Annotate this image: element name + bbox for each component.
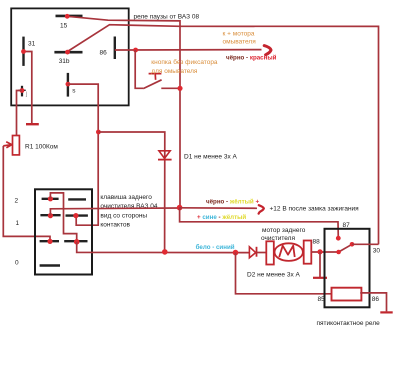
- node 86 junction: [133, 48, 138, 53]
- svg-text:31b: 31b: [59, 58, 70, 65]
- resistor R1 100K (variable): [13, 136, 20, 155]
- switch contact bars row B: [40, 214, 60, 216]
- wire C2 to motor line (бело-синий): [77, 242, 250, 253]
- node B1: [48, 213, 53, 218]
- node pin 87: [336, 236, 341, 241]
- wire motor to relay pin 88: [311, 251, 338, 253]
- relay K1 (5-pin) box: [325, 229, 370, 307]
- wire 88 junction to ground: [319, 252, 321, 277]
- motor right brush: [304, 241, 312, 264]
- wire A to C2: [50, 193, 76, 242]
- diode D1: [159, 151, 170, 159]
- pin s bar: [67, 73, 69, 97]
- svg-text:вид со стороны: вид со стороны: [100, 213, 147, 220]
- svg-text:R1 100Ком: R1 100Ком: [25, 143, 58, 150]
- node 88 junction: [317, 249, 322, 254]
- wire pin 31b to relay pin 30 (top long run): [68, 25, 379, 245]
- pin 31 bar: [22, 37, 24, 66]
- svg-text:15: 15: [60, 23, 68, 30]
- node pin s: [66, 82, 71, 87]
- wire coil 86 to ground: [360, 293, 386, 312]
- svg-text:31: 31: [28, 41, 36, 48]
- svg-text:мотор заднего: мотор заднего: [262, 227, 306, 234]
- node +12V junction: [177, 205, 183, 211]
- wire B1 to +12V node: [50, 208, 179, 216]
- svg-text:чёрно - жёлтый +: чёрно - жёлтый +: [206, 198, 259, 205]
- switch contact bars row A: [42, 198, 59, 200]
- svg-text:кнопка без фиксатора: кнопка без фиксатора: [151, 58, 218, 66]
- svg-text:87: 87: [343, 222, 351, 229]
- wire wiper to switch contact C1: [3, 146, 50, 242]
- node pin 31b: [65, 50, 70, 55]
- node D1 branch: [96, 130, 101, 135]
- switch S1 (rear wiper key VAZ 04) box: [35, 189, 92, 274]
- svg-text:0: 0: [15, 260, 19, 267]
- node C2: [74, 239, 80, 245]
- pin 15 bar: [56, 15, 83, 18]
- wire +12V node to relay pin 87: [180, 208, 339, 239]
- relay blade 88-30: [339, 244, 352, 252]
- svg-text:к + мотора: к + мотора: [223, 31, 255, 38]
- svg-text:бело - синий: бело - синий: [196, 244, 235, 251]
- wire pin j to R1 top: [17, 91, 23, 136]
- svg-text:реле паузы от ВАЗ 08: реле паузы от ВАЗ 08: [134, 14, 200, 21]
- svg-text:контактов: контактов: [100, 222, 130, 229]
- node button/+15: [177, 86, 182, 91]
- node D1 / motor line: [162, 249, 168, 255]
- wire D2 to motor: [257, 252, 267, 254]
- ground near coil 86: [380, 311, 392, 313]
- wire blade to pin 30: [352, 243, 379, 245]
- svg-text:+12 В после замка зажигания: +12 В после замка зажигания: [270, 205, 360, 212]
- node pin j: [20, 88, 25, 93]
- diode D2: [249, 247, 255, 258]
- node blade pivot: [336, 250, 341, 255]
- wire 86 node down to washer button: [135, 50, 143, 88]
- svg-text:+ сине - жёлтый: + сине - жёлтый: [197, 214, 246, 221]
- node B2: [73, 213, 78, 218]
- arrowhead +12V: [259, 205, 264, 213]
- ground under 88: [313, 277, 327, 279]
- wire +12V arrow: [180, 207, 257, 210]
- pin 31b bar: [54, 51, 82, 54]
- motor M1 rear wiper: left brush: [266, 241, 274, 264]
- svg-text:86: 86: [372, 296, 380, 303]
- motor body: [275, 243, 303, 261]
- svg-text:чёрно - красный: чёрно - красный: [226, 55, 277, 62]
- svg-text:2: 2: [15, 198, 19, 205]
- svg-text:пятиконтактное реле: пятиконтактное реле: [317, 320, 381, 327]
- svg-text:j: j: [25, 91, 27, 98]
- switch contact bar row 0: [40, 264, 60, 266]
- wire from pin 15 down right side to +12V node: [67, 16, 180, 207]
- relay U1 (pause relay) box: [11, 8, 129, 105]
- R1 wiper arrow from left line: [3, 142, 12, 148]
- pin 86 bar: [114, 37, 116, 60]
- button SB1 (washer, no latch): blade: [143, 80, 161, 89]
- node pin 15: [65, 14, 70, 19]
- svg-text:очистителя: очистителя: [261, 235, 295, 242]
- svg-text:86: 86: [100, 50, 108, 57]
- node blade end: [350, 242, 355, 247]
- wire D1 branch: [98, 132, 164, 252]
- svg-text:30: 30: [373, 247, 381, 254]
- svg-text:D2 не менее 3х А: D2 не менее 3х А: [247, 272, 301, 279]
- wire pin 86 to washer motor arrow: [115, 49, 262, 51]
- button right contact to +15 line: [161, 87, 180, 89]
- ground under pin 31: [26, 123, 39, 125]
- arrow to washer motor (чёрно-красный): [264, 46, 271, 55]
- svg-text:1: 1: [16, 220, 20, 227]
- wire pin31 to ground: [24, 52, 32, 124]
- svg-text:для омывателя: для омывателя: [151, 68, 198, 75]
- node pin 31: [21, 49, 26, 54]
- node C1: [47, 239, 52, 244]
- svg-text:D1 не менее 3х А: D1 не менее 3х А: [184, 153, 238, 160]
- svg-text:88: 88: [313, 239, 321, 246]
- svg-text:85: 85: [318, 296, 326, 303]
- wire coil branch down to relay coil 85: [236, 253, 332, 294]
- button actuator T: [149, 74, 162, 80]
- wire pin s down to switch contact B2: [68, 84, 98, 225]
- node coil branch: [233, 250, 239, 256]
- node A: [48, 196, 53, 201]
- svg-text:омывателя: омывателя: [223, 38, 257, 45]
- switch contact bars row C: [40, 240, 59, 242]
- relay coil: [332, 288, 362, 301]
- pin j bar: [21, 86, 23, 97]
- motor M letter: [279, 246, 295, 257]
- svg-text:клавиша заднего: клавиша заднего: [100, 194, 152, 201]
